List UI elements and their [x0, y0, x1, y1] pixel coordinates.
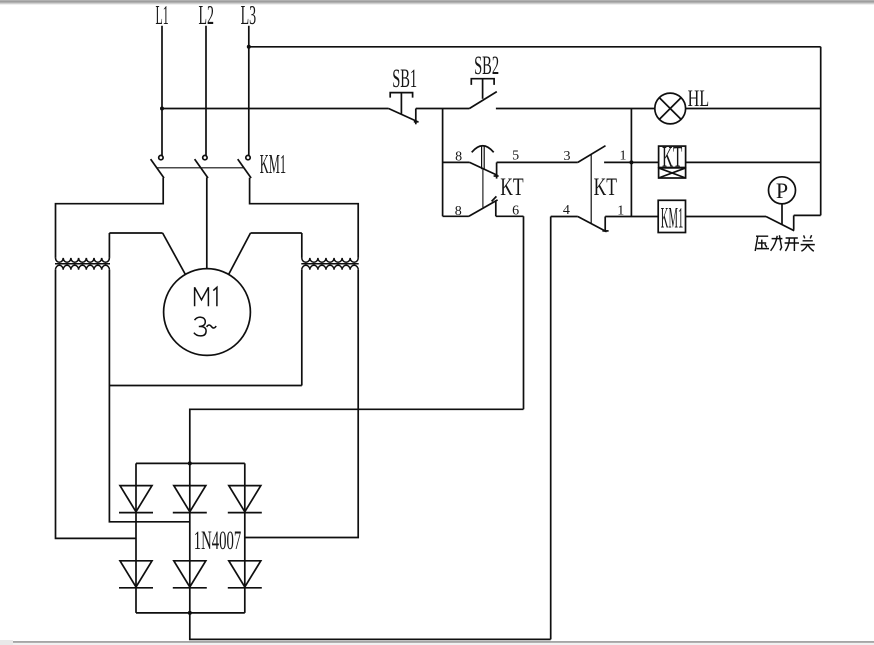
svg-text:8: 8: [455, 150, 462, 165]
wire SB1 to SB2: [416, 108, 470, 110]
wire motor lead left diagonal: [163, 233, 186, 275]
wire L2 drop: [205, 26, 207, 156]
wire motor step right: [251, 232, 302, 234]
svg-text:KT: KT: [500, 174, 523, 201]
wire KT pin4 riser: [550, 217, 552, 640]
diode D4: [119, 561, 153, 588]
junction bridge bottom: [188, 611, 192, 615]
wire pin6 to drop: [496, 215, 524, 217]
reactor left lower winding: [56, 265, 110, 269]
svg-text:SB1: SB1: [392, 64, 417, 93]
pressure switch label 压力开关: [755, 235, 815, 251]
wire riser to contact 4-1: [551, 216, 578, 218]
wire motor step left: [109, 232, 162, 234]
KM1 linkage bar: [157, 167, 245, 169]
wire pin5 to pin3: [497, 161, 578, 163]
wire top rail from L3 to right edge: [249, 46, 821, 48]
wire branch drop to KT rows: [442, 109, 444, 217]
rectifier bridge frame top: [136, 462, 245, 464]
wire control rail from L1 to SB1: [162, 108, 389, 110]
diode D1: [119, 486, 153, 513]
svg-text:KT: KT: [594, 174, 617, 201]
wire right inner drop: [301, 270, 303, 386]
wire left inner riser to motor step: [108, 233, 110, 258]
reactor left core: [55, 263, 110, 265]
junction L1 / control rail: [160, 107, 164, 111]
wire motor lead right diagonal: [229, 233, 251, 275]
wire branch drop to KM1 row: [630, 109, 632, 217]
wire rectifier dc- run: [190, 613, 551, 640]
contact KT (3-1 NO): [578, 146, 606, 224]
svg-text:5: 5: [512, 149, 519, 164]
pushbutton SB2 (NO): [469, 79, 496, 109]
rectifier bridge frame bottom: [136, 612, 245, 614]
contact KT delayed (8-5): [470, 146, 499, 208]
motor M1: [164, 269, 251, 356]
wire SB2 to lamp: [496, 108, 655, 110]
wire L3 drop: [248, 26, 250, 156]
diode D2: [173, 486, 207, 513]
diode D5: [173, 561, 207, 588]
svg-text:HL: HL: [688, 86, 710, 111]
wire left outer drop to bridge left tap: [56, 270, 137, 539]
wire under motor: [109, 385, 301, 387]
wire right edge drop: [820, 47, 822, 216]
svg-text:P: P: [776, 178, 788, 203]
junction KT row: [629, 160, 633, 164]
rectifier column right: [244, 463, 246, 613]
wire pole3 out, right run: [250, 204, 359, 258]
rectifier column middle: [189, 463, 191, 613]
svg-text:SB2: SB2: [474, 51, 499, 80]
junction L3 / top rail: [247, 45, 251, 49]
svg-text:L1: L1: [156, 0, 169, 30]
wire pin1 to KT coil: [604, 161, 659, 163]
reactor right lower winding: [302, 265, 358, 269]
wire pressure switch to right edge: [794, 214, 821, 216]
wire pole1 out, left run: [56, 204, 164, 258]
svg-text:KM1: KM1: [661, 202, 684, 235]
wire lamp to right edge: [686, 108, 821, 110]
wire lower row from branch: [443, 215, 469, 217]
lamp HL: [655, 93, 686, 124]
contact KT (4-1 NC): [578, 217, 609, 232]
diode D6: [228, 561, 262, 588]
reactor right core: [301, 263, 358, 265]
wire KM1 coil to pressure switch: [686, 216, 767, 218]
contactor KM1 pole 2: [195, 155, 208, 268]
svg-text:L3: L3: [241, 0, 257, 30]
wire KT coil to right edge: [686, 161, 821, 163]
pressure switch contact: [766, 215, 794, 230]
svg-text:1N4007: 1N4007: [194, 526, 241, 555]
reactor right upper winding: [302, 258, 358, 262]
contact KT (8-6 NO rising arm): [469, 196, 498, 216]
contactor KM1 pole 3: [238, 155, 251, 204]
wire KT pin6 drop: [523, 216, 525, 409]
window top edge bar: [0, 0, 874, 5]
wire pin1 to KM1 coil: [605, 216, 658, 218]
window bottom edge bar: [0, 640, 874, 645]
reactor left upper winding: [56, 258, 110, 262]
wire L1 drop: [161, 26, 163, 156]
diode D3: [228, 486, 262, 513]
contactor coil KM1: [658, 200, 685, 234]
svg-text:3: 3: [564, 149, 571, 164]
svg-text:8: 8: [455, 204, 462, 219]
wire right outer drop to bridge right tap: [245, 270, 358, 538]
contactor KM1 pole 1: [151, 155, 164, 204]
wire to KT delayed contact: [443, 161, 470, 163]
relay coil KT: [659, 140, 686, 178]
svg-text:L2: L2: [198, 0, 214, 30]
wire left inner drop to bridge mid tap: [109, 270, 189, 522]
svg-text:1: 1: [620, 149, 627, 164]
wire right inner riser: [301, 233, 303, 258]
pressure switch P sensor: [769, 177, 796, 225]
rectifier column left: [135, 463, 137, 613]
svg-text:KM1: KM1: [260, 149, 286, 179]
wire rectifier dc+ run: [190, 409, 524, 463]
pushbutton SB1 (NC): [389, 93, 419, 125]
junction bridge top: [188, 461, 192, 465]
